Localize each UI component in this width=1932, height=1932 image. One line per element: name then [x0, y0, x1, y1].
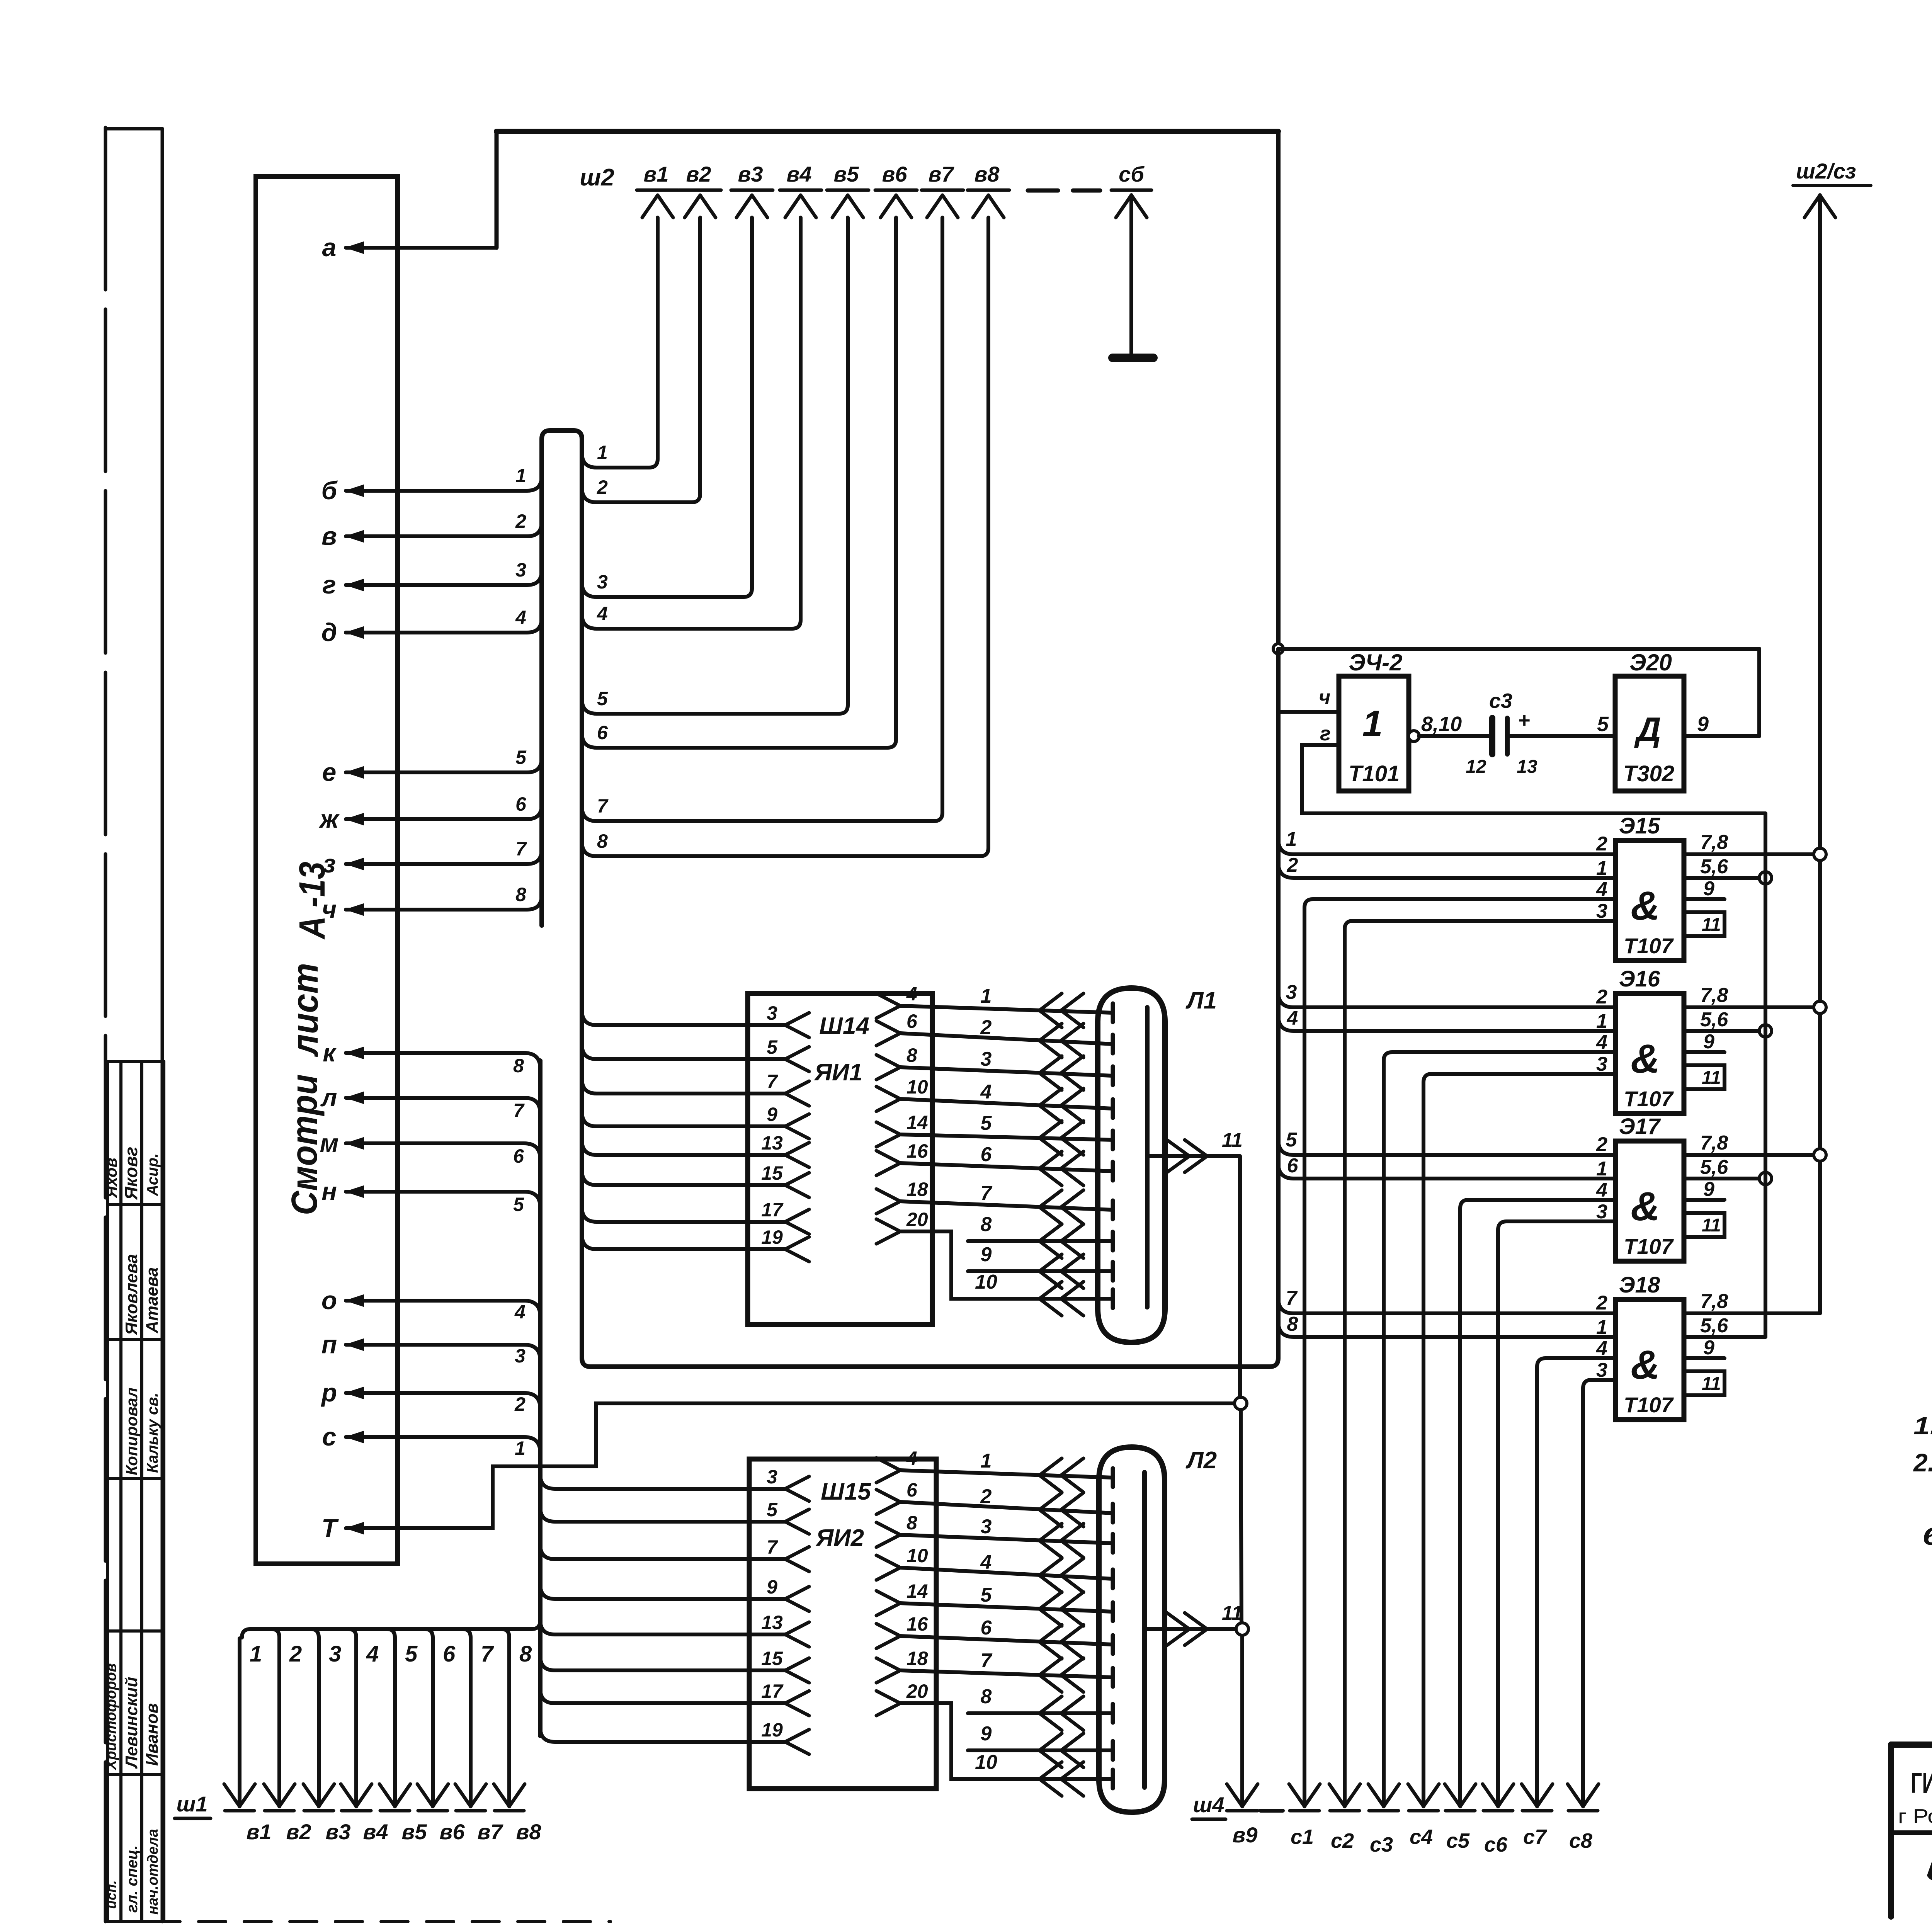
svg-text:ш1: ш1 — [177, 1792, 208, 1816]
svg-text:1. Данная схема выполнена н: 1. Данная схема выполнена на листах А -1… — [1913, 1412, 1932, 1440]
svg-text:1: 1 — [1596, 1158, 1607, 1180]
svg-text:Ш15: Ш15 — [821, 1478, 871, 1505]
svg-text:5,6: 5,6 — [1700, 1156, 1728, 1179]
svg-text:9: 9 — [1703, 878, 1714, 900]
svg-text:гл. спец.: гл. спец. — [124, 1845, 141, 1913]
svg-text:Э15: Э15 — [1619, 813, 1660, 838]
svg-text:3: 3 — [767, 1002, 777, 1024]
svg-text:8: 8 — [906, 1512, 917, 1534]
svg-text:5,6: 5,6 — [1700, 1315, 1728, 1337]
svg-text:19: 19 — [761, 1226, 783, 1248]
svg-text:Кальку св.: Кальку св. — [144, 1393, 161, 1473]
svg-text:с1: с1 — [1291, 1825, 1314, 1849]
svg-text:7: 7 — [981, 1650, 993, 1672]
svg-text:9: 9 — [767, 1104, 777, 1125]
svg-text:7: 7 — [597, 795, 609, 817]
svg-text:Т107: Т107 — [1624, 1393, 1674, 1417]
svg-text:7,8: 7,8 — [1700, 1290, 1728, 1313]
svg-text:12: 12 — [1466, 757, 1486, 777]
svg-text:Т107: Т107 — [1624, 1234, 1674, 1259]
svg-text:п: п — [321, 1330, 337, 1359]
svg-text:в5: в5 — [402, 1820, 427, 1844]
svg-text:р: р — [321, 1378, 337, 1407]
svg-text:к: к — [323, 1038, 337, 1067]
svg-text:в8: в8 — [975, 162, 1000, 186]
svg-text:+: + — [1518, 709, 1530, 732]
svg-text:Яхов: Яхов — [102, 1158, 120, 1198]
svg-text:1: 1 — [1596, 857, 1607, 879]
svg-text:5: 5 — [767, 1036, 778, 1058]
svg-text:нач.отдела: нач.отдела — [145, 1829, 161, 1915]
svg-text:14: 14 — [906, 1580, 928, 1602]
svg-text:1: 1 — [1362, 703, 1383, 744]
svg-text:4: 4 — [1287, 1007, 1298, 1029]
svg-text:17: 17 — [761, 1199, 784, 1221]
svg-text:1: 1 — [250, 1641, 262, 1667]
svg-text:3: 3 — [515, 559, 526, 581]
svg-text:8: 8 — [981, 1685, 992, 1708]
svg-text:в8: в8 — [516, 1820, 542, 1844]
svg-text:Яковлева: Яковлева — [122, 1254, 141, 1335]
svg-text:с8: с8 — [1569, 1829, 1592, 1852]
svg-text:8: 8 — [513, 1055, 524, 1077]
svg-text:ш2: ш2 — [580, 164, 614, 191]
svg-text:5: 5 — [597, 688, 608, 709]
svg-text:Т302: Т302 — [1623, 761, 1674, 786]
svg-text:в7: в7 — [478, 1820, 504, 1844]
svg-text:с4: с4 — [1410, 1825, 1433, 1849]
svg-text:с3: с3 — [1489, 689, 1512, 713]
svg-text:&: & — [1631, 883, 1660, 929]
svg-text:3: 3 — [329, 1641, 341, 1667]
svg-text:5: 5 — [767, 1499, 778, 1520]
svg-text:з: з — [323, 849, 336, 878]
svg-text:ш4: ш4 — [1193, 1793, 1225, 1817]
svg-text:4: 4 — [980, 1551, 992, 1573]
svg-text:5: 5 — [405, 1641, 418, 1667]
svg-text:ЭЧ-2: ЭЧ-2 — [1349, 650, 1403, 675]
svg-text:3: 3 — [515, 1345, 526, 1367]
svg-text:6: 6 — [513, 1145, 524, 1167]
svg-text:11: 11 — [1702, 1068, 1721, 1088]
svg-text:2. На листах: 2. На листах — [1913, 1448, 1932, 1477]
svg-text:3: 3 — [597, 571, 608, 593]
svg-text:6: 6 — [906, 1479, 918, 1501]
svg-text:н: н — [321, 1177, 337, 1206]
svg-text:3: 3 — [981, 1515, 992, 1538]
svg-text:1: 1 — [515, 465, 526, 486]
svg-text:19: 19 — [761, 1719, 783, 1741]
svg-text:с6: с6 — [1484, 1833, 1508, 1856]
svg-text:5,6: 5,6 — [1700, 855, 1728, 878]
svg-text:в2: в2 — [686, 162, 711, 186]
svg-text:7,8: 7,8 — [1700, 831, 1728, 854]
svg-text:2: 2 — [980, 1016, 992, 1039]
svg-text:7: 7 — [481, 1641, 494, 1667]
svg-text:4: 4 — [514, 1301, 526, 1323]
svg-text:г Ростов-на-Дону 1976г: г Ростов-на-Дону 1976г — [1898, 1805, 1932, 1828]
svg-text:в2: в2 — [286, 1820, 311, 1844]
svg-text:ЯИ1: ЯИ1 — [814, 1059, 862, 1086]
svg-text:Т107: Т107 — [1624, 934, 1674, 958]
svg-text:20: 20 — [906, 1209, 928, 1230]
svg-text:7: 7 — [981, 1182, 993, 1204]
svg-text:ч: ч — [322, 895, 337, 923]
svg-text:8: 8 — [515, 884, 526, 905]
svg-text:10: 10 — [906, 1545, 928, 1566]
svg-text:Д: Д — [1634, 710, 1661, 748]
svg-text:6: 6 — [597, 722, 608, 743]
svg-text:10: 10 — [906, 1076, 928, 1098]
svg-text:Смотри: Смотри — [284, 1074, 325, 1215]
svg-text:5,6: 5,6 — [1700, 1009, 1728, 1031]
svg-text:Атаева: Атаева — [143, 1267, 162, 1333]
svg-text:11: 11 — [1222, 1129, 1243, 1151]
svg-text:4: 4 — [366, 1641, 379, 1667]
svg-text:Э18: Э18 — [1619, 1272, 1660, 1298]
svg-text:Ш14: Ш14 — [819, 1013, 869, 1039]
svg-text:9: 9 — [1703, 1031, 1714, 1053]
svg-text:Л2: Л2 — [1185, 1447, 1217, 1474]
svg-text:в7: в7 — [929, 162, 955, 186]
svg-text:ЯИ2: ЯИ2 — [815, 1525, 864, 1551]
svg-text:в6: в6 — [882, 162, 908, 186]
svg-text:5: 5 — [981, 1584, 992, 1606]
svg-text:л: л — [320, 1083, 337, 1112]
svg-text:11: 11 — [1702, 915, 1721, 935]
svg-text:Э16: Э16 — [1619, 966, 1660, 992]
svg-text:а: а — [322, 233, 337, 262]
svg-text:ч: ч — [1319, 686, 1330, 709]
svg-text:4: 4 — [515, 607, 526, 628]
svg-text:9: 9 — [1703, 1337, 1714, 1359]
svg-text:4: 4 — [980, 1081, 992, 1103]
svg-text:2: 2 — [515, 510, 526, 532]
svg-text:9: 9 — [981, 1723, 992, 1745]
svg-text:4: 4 — [906, 983, 917, 1005]
svg-text:о: о — [321, 1286, 337, 1315]
svg-text:4: 4 — [906, 1447, 917, 1469]
svg-text:ш2/сз: ш2/сз — [1796, 159, 1856, 183]
svg-text:2: 2 — [597, 476, 608, 498]
svg-text:в: в — [321, 522, 337, 550]
svg-text:17: 17 — [761, 1680, 784, 1702]
svg-text:7: 7 — [767, 1536, 778, 1558]
svg-text:1: 1 — [515, 1437, 526, 1459]
svg-text:14: 14 — [906, 1112, 928, 1133]
svg-text:8,10: 8,10 — [1421, 713, 1462, 736]
svg-text:7,8: 7,8 — [1700, 984, 1728, 1007]
svg-text:15: 15 — [761, 1648, 783, 1669]
svg-text:13: 13 — [1517, 757, 1537, 777]
svg-text:5: 5 — [981, 1112, 992, 1134]
svg-text:9: 9 — [1697, 713, 1709, 736]
svg-text:в4: в4 — [363, 1820, 388, 1844]
svg-text:1: 1 — [981, 985, 992, 1007]
svg-text:Т: Т — [321, 1514, 339, 1542]
svg-text:&: & — [1631, 1342, 1660, 1388]
svg-text:м: м — [320, 1129, 339, 1157]
svg-text:Т107: Т107 — [1624, 1087, 1674, 1111]
svg-text:Асир.: Асир. — [144, 1153, 161, 1196]
svg-text:исп.: исп. — [103, 1880, 119, 1909]
svg-text:8: 8 — [519, 1641, 532, 1667]
svg-text:18: 18 — [906, 1179, 928, 1200]
svg-text:с: с — [322, 1422, 337, 1451]
svg-text:Яковг: Яковг — [121, 1147, 141, 1200]
svg-text:с2: с2 — [1331, 1829, 1354, 1852]
svg-text:с7: с7 — [1523, 1825, 1548, 1849]
svg-text:6БХ407. 119. Э3 предприятия: 6БХ407. 119. Э3 предприятия п/я М- 5878. — [1922, 1522, 1932, 1550]
svg-text:8: 8 — [1287, 1313, 1298, 1335]
svg-text:с5: с5 — [1446, 1829, 1470, 1852]
svg-text:3: 3 — [767, 1466, 777, 1488]
svg-text:2: 2 — [1287, 854, 1298, 876]
svg-text:3: 3 — [981, 1048, 992, 1070]
svg-text:8: 8 — [981, 1213, 992, 1236]
svg-text:1: 1 — [1286, 828, 1297, 850]
svg-text:г: г — [322, 570, 336, 599]
svg-text:Левинский: Левинский — [122, 1677, 141, 1769]
svg-text:&: & — [1631, 1036, 1660, 1082]
svg-text:2: 2 — [289, 1641, 302, 1667]
svg-text:7,8: 7,8 — [1700, 1132, 1728, 1154]
svg-text:20: 20 — [906, 1680, 928, 1702]
svg-text:сб: сб — [1119, 162, 1145, 186]
svg-text:18: 18 — [906, 1648, 928, 1669]
svg-text:8: 8 — [906, 1044, 917, 1066]
svg-text:16: 16 — [906, 1140, 929, 1162]
svg-text:в9: в9 — [1233, 1823, 1258, 1847]
svg-text:д: д — [321, 618, 337, 646]
svg-text:9: 9 — [981, 1243, 992, 1266]
svg-text:с3: с3 — [1370, 1833, 1393, 1856]
svg-text:1: 1 — [1596, 1010, 1607, 1032]
svg-text:9: 9 — [1703, 1178, 1714, 1201]
svg-text:в3: в3 — [738, 162, 763, 186]
svg-text:6: 6 — [1287, 1155, 1299, 1177]
svg-text:6: 6 — [443, 1641, 456, 1667]
svg-text:16: 16 — [906, 1613, 929, 1635]
svg-text:8: 8 — [597, 830, 608, 852]
svg-text:в4: в4 — [787, 162, 812, 186]
svg-text:Иванов: Иванов — [143, 1703, 162, 1766]
svg-text:5: 5 — [515, 747, 527, 768]
svg-text:3: 3 — [1286, 981, 1297, 1003]
svg-text:5: 5 — [513, 1194, 524, 1215]
svg-text:ГИПРОСТРОЙДОРМАШ: ГИПРОСТРОЙДОРМАШ — [1911, 1767, 1932, 1799]
svg-text:1: 1 — [597, 442, 608, 463]
svg-text:в1: в1 — [247, 1820, 272, 1844]
svg-text:6: 6 — [981, 1617, 992, 1639]
svg-text:в3: в3 — [326, 1820, 351, 1844]
svg-text:2: 2 — [1596, 833, 1607, 855]
svg-text:7: 7 — [767, 1071, 778, 1092]
svg-text:в1: в1 — [644, 162, 669, 186]
svg-text:7: 7 — [515, 838, 527, 860]
svg-text:2: 2 — [1596, 1133, 1607, 1156]
svg-text:ж: ж — [319, 804, 340, 833]
svg-text:в5: в5 — [834, 162, 859, 186]
svg-text:5: 5 — [1286, 1129, 1298, 1151]
svg-text:г: г — [1320, 723, 1331, 745]
svg-text:Копировал: Копировал — [122, 1388, 141, 1475]
svg-text:10: 10 — [975, 1751, 997, 1774]
svg-text:15: 15 — [761, 1162, 783, 1184]
svg-text:б: б — [321, 476, 338, 505]
svg-text:6: 6 — [515, 793, 527, 815]
svg-text:7: 7 — [1286, 1287, 1298, 1310]
svg-text:е: е — [322, 758, 337, 786]
svg-text:1: 1 — [981, 1450, 992, 1472]
svg-text:11: 11 — [1702, 1374, 1721, 1394]
svg-text:4: 4 — [597, 603, 608, 624]
svg-text:13: 13 — [761, 1612, 783, 1633]
svg-text:2: 2 — [514, 1393, 526, 1415]
svg-text:в6: в6 — [440, 1820, 465, 1844]
svg-text:9: 9 — [767, 1576, 777, 1598]
svg-text:6: 6 — [981, 1143, 992, 1166]
svg-text:1: 1 — [1596, 1316, 1607, 1338]
svg-text:5: 5 — [1597, 713, 1609, 736]
svg-text:2: 2 — [1596, 986, 1607, 1008]
svg-text:2: 2 — [980, 1485, 992, 1508]
svg-text:Т101: Т101 — [1349, 761, 1400, 786]
svg-text:6: 6 — [906, 1010, 918, 1032]
svg-text:13: 13 — [761, 1132, 783, 1154]
svg-text:лист: лист — [285, 963, 326, 1057]
svg-text:7: 7 — [513, 1100, 525, 1121]
svg-text:Христофоров: Христофоров — [103, 1663, 119, 1770]
svg-text:&: & — [1631, 1184, 1660, 1229]
svg-text:Л1: Л1 — [1185, 987, 1217, 1014]
svg-text:10: 10 — [975, 1271, 997, 1293]
svg-text:Э20: Э20 — [1629, 650, 1672, 675]
svg-text:11: 11 — [1702, 1215, 1721, 1236]
svg-text:2: 2 — [1596, 1292, 1607, 1314]
svg-text:Э17: Э17 — [1619, 1114, 1661, 1139]
